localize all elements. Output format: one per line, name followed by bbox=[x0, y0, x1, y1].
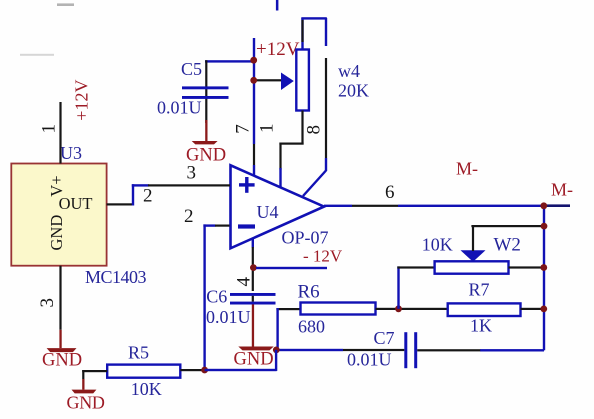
svg-text:1: 1 bbox=[257, 124, 278, 134]
wire: w4 bottom to pin 1 bbox=[279, 111, 303, 190]
svg-text:GND: GND bbox=[42, 351, 82, 371]
node: pin4 / -12V junction bbox=[250, 264, 257, 271]
wire: U3 GND pin 3 bbox=[59, 266, 61, 348]
wire: V+ stub of U3 bbox=[59, 102, 61, 164]
wire: pin 4 lead bbox=[252, 239, 254, 292]
wire: R5 left to ground bbox=[82, 370, 107, 390]
scan smudge top bbox=[57, 3, 74, 6]
wire: top stub bbox=[276, 0, 279, 11]
wire: +12V rail to pin 7 bbox=[253, 38, 255, 177]
svg-text:MC1403: MC1403 bbox=[85, 267, 147, 287]
svg-text:10K: 10K bbox=[422, 235, 453, 255]
svg-text:OUT: OUT bbox=[59, 194, 93, 213]
svg-text:0.01U: 0.01U bbox=[206, 307, 251, 327]
svg-text:+12V: +12V bbox=[256, 39, 300, 60]
svg-text:10K: 10K bbox=[131, 379, 162, 399]
svg-text:M-: M- bbox=[456, 159, 478, 179]
op-amp plus mark bbox=[239, 177, 255, 193]
wire: op-amp output bbox=[324, 204, 570, 207]
svg-text:- 12V: - 12V bbox=[303, 247, 343, 266]
svg-text:680: 680 bbox=[298, 317, 325, 337]
svg-text:6: 6 bbox=[385, 182, 395, 203]
svg-text:1K: 1K bbox=[470, 316, 492, 336]
svg-text:20K: 20K bbox=[338, 81, 369, 101]
op-amp minus mark bbox=[238, 224, 255, 228]
svg-text:1: 1 bbox=[39, 124, 60, 134]
svg-text:C5: C5 bbox=[181, 59, 202, 79]
resistor R5 bbox=[107, 365, 180, 378]
resistor R7 bbox=[448, 303, 521, 316]
svg-text:M-: M- bbox=[551, 180, 573, 200]
node: R7 right junction bbox=[540, 306, 547, 313]
svg-text:R5: R5 bbox=[128, 343, 149, 363]
wire: inverting input net bbox=[203, 224, 229, 370]
node: feedback node bbox=[273, 347, 280, 354]
wire: output bus vertical bbox=[543, 205, 545, 350]
wiper arrow (w4) bbox=[281, 73, 294, 91]
svg-text:3: 3 bbox=[37, 298, 58, 308]
svg-text:W2: W2 bbox=[494, 235, 521, 256]
potentiometer w4 bbox=[296, 50, 309, 111]
svg-text:0.01U: 0.01U bbox=[157, 98, 202, 118]
resistor R6 bbox=[301, 303, 376, 315]
svg-text:GND: GND bbox=[67, 393, 105, 413]
wire: R7 right bbox=[521, 308, 544, 310]
node: +12V / C5 junction bbox=[250, 57, 257, 64]
node: W2 right junction bbox=[540, 264, 547, 271]
svg-text:4: 4 bbox=[233, 277, 254, 287]
node: output junction bbox=[540, 202, 547, 209]
svg-text:0.01U: 0.01U bbox=[347, 350, 392, 370]
wire: w4 top to pin 8 feedback bbox=[301, 17, 327, 196]
ground (C5) bbox=[192, 120, 218, 144]
svg-text:R6: R6 bbox=[298, 282, 320, 303]
node: R6/R7/W2 junction bbox=[395, 305, 402, 312]
scan smudge left bbox=[20, 54, 54, 56]
svg-text:8: 8 bbox=[304, 125, 325, 135]
wire: junction up to W2 left bbox=[397, 266, 434, 308]
U3 box (MC1403) bbox=[11, 164, 106, 266]
wire: R5 right to node bbox=[180, 369, 205, 371]
wire: bus bottom to C7 bbox=[417, 349, 544, 351]
svg-text:OP-07: OP-07 bbox=[282, 228, 329, 248]
svg-text:R7: R7 bbox=[469, 280, 490, 300]
svg-text:C6: C6 bbox=[206, 287, 227, 307]
wire: W2 right bbox=[509, 266, 544, 268]
node: R5 / pin2 junction bbox=[201, 367, 208, 374]
wire: C7 left to node bbox=[276, 349, 404, 351]
node: wiper junction bbox=[250, 77, 257, 84]
svg-text:7: 7 bbox=[233, 124, 254, 134]
wire: node down-left to R5 junction bbox=[205, 350, 278, 371]
op-amp U4 bbox=[231, 165, 325, 248]
svg-text:2: 2 bbox=[184, 206, 194, 227]
capacitor C7 bbox=[404, 332, 417, 368]
ground (U3) bbox=[47, 348, 77, 352]
svg-text:GND: GND bbox=[234, 350, 274, 370]
svg-text:C7: C7 bbox=[374, 328, 395, 348]
ground (R5) bbox=[72, 390, 97, 394]
svg-text:2: 2 bbox=[143, 186, 153, 207]
wire: W2 wiper to output net bbox=[471, 225, 543, 251]
svg-text:w4: w4 bbox=[338, 61, 360, 81]
wire: C5 top lead bbox=[205, 60, 254, 123]
wiper arrow (W2) bbox=[461, 250, 486, 261]
svg-text:U4: U4 bbox=[257, 202, 279, 222]
ground (C6) bbox=[238, 304, 273, 350]
svg-text:+12V: +12V bbox=[71, 80, 91, 121]
wire: node to R6 left bbox=[276, 308, 301, 350]
wire: R6 right to R7 left bbox=[376, 308, 448, 310]
svg-text:3: 3 bbox=[187, 163, 197, 184]
wire: U3 OUT to op-amp plus input bbox=[107, 184, 230, 205]
potentiometer W2 bbox=[435, 261, 509, 273]
capacitor C5 bbox=[182, 86, 229, 99]
svg-text:GND: GND bbox=[47, 215, 66, 251]
wire: -12V stub bbox=[256, 267, 327, 269]
node: wiper junction (bus) bbox=[541, 223, 548, 230]
wire: wiper feed to w4 bbox=[254, 79, 284, 81]
svg-text:U3: U3 bbox=[60, 143, 82, 163]
capacitor C6 bbox=[230, 293, 276, 305]
